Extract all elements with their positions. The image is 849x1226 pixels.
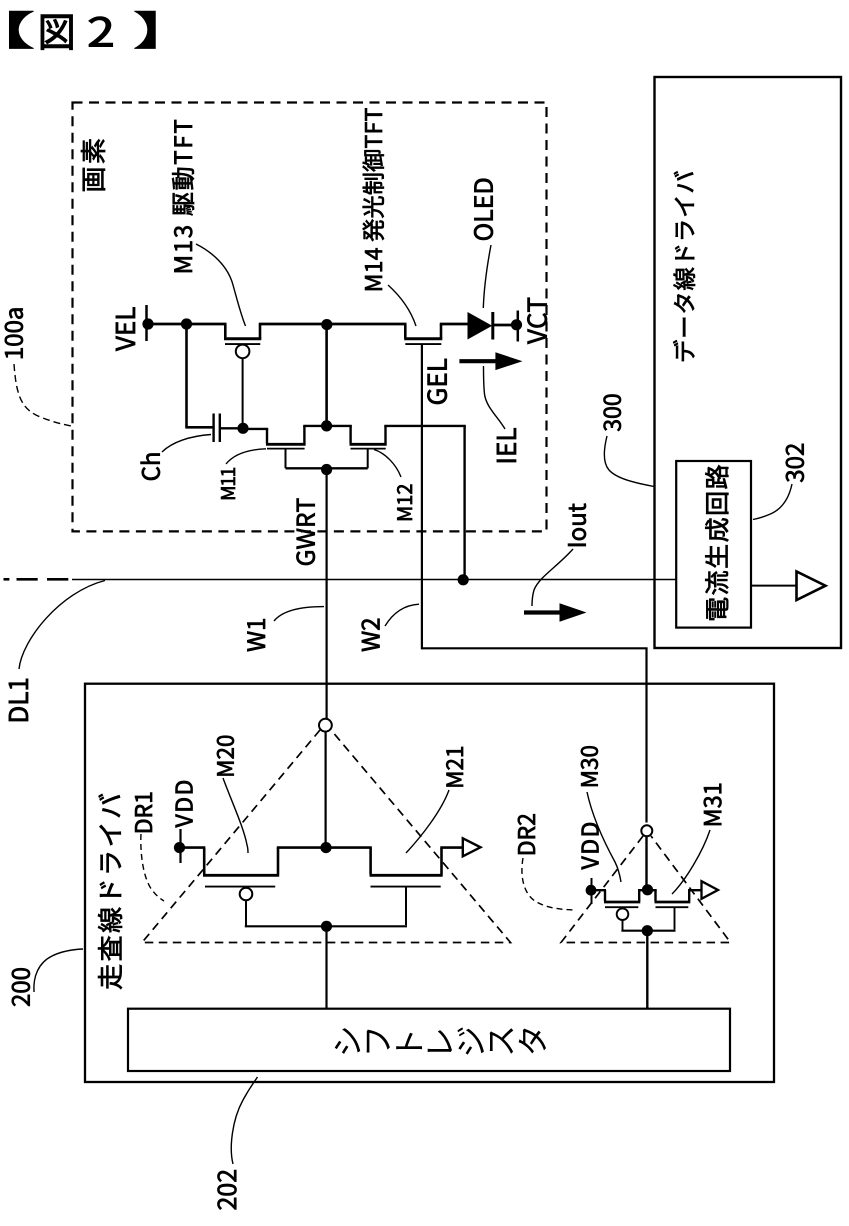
wire W2 horizontal run: [422, 647, 648, 649]
label M12: [397, 485, 412, 520]
wire OLED to VCT: [493, 324, 512, 327]
transistor M13 gate bar: [225, 343, 260, 345]
figure title 【図２】: [10, 11, 33, 48]
label OLED: [474, 179, 493, 240]
transistor M14 right lead: [440, 324, 443, 339]
leader for M31: [672, 830, 710, 894]
transistor M31 gate lead: [674, 907, 676, 929]
wire GEL from M14 gate down: [421, 344, 423, 649]
label シフトレジスタ (each glyph rotated): [335, 1028, 361, 1054]
leader for M11: [226, 449, 266, 464]
wire M12 drain to W2 drop: [384, 425, 466, 427]
transistor M13 source lead: [259, 324, 262, 339]
transistor M20 gate bubble: [240, 888, 253, 901]
wire node A to M11: [243, 428, 268, 430]
wire M11/M12 gates bus: [286, 467, 368, 469]
transistor M13 drain lead: [224, 324, 227, 339]
wire DR2 input down to shift register: [646, 931, 648, 1009]
transistor M12 left lead: [349, 426, 351, 444]
label IEL: [497, 428, 516, 462]
leader for 300: [604, 436, 654, 487]
output buffer triangle: [797, 572, 826, 601]
wire VEL rail right segment (to OLED): [440, 323, 468, 326]
leader for M20: [223, 778, 248, 853]
DR1 center node dot: [320, 842, 331, 853]
label データ線ドライバ: [673, 171, 695, 361]
label W2: [362, 619, 380, 652]
VDD terminal DR2: [591, 878, 593, 904]
leader for DR2 (dashed): [522, 858, 574, 910]
node dot on VEL rail: [321, 319, 332, 330]
label GWRT: [296, 499, 315, 565]
transistor M21 left lead: [369, 848, 372, 875]
label 200: [12, 968, 30, 1006]
leader for 100a: [14, 364, 71, 426]
leader for DL1: [19, 581, 105, 670]
wire M31 to DR2 output arrow: [688, 889, 701, 891]
label M14 発光制御TFT: [363, 108, 384, 290]
leader for W2: [385, 604, 419, 626]
node A dot (storage node): [237, 423, 248, 434]
transistor M31 gate bar: [656, 906, 689, 908]
leader for OLED: [483, 245, 491, 308]
wire DR1 input down to shift register: [325, 926, 327, 1009]
label M11: [221, 468, 235, 499]
label M30: [581, 746, 598, 786]
label DR2: [518, 814, 535, 854]
wire 302 output to buffer: [751, 585, 797, 587]
transistor M14 left lead: [404, 324, 407, 339]
label 画素: [81, 139, 105, 191]
transistor M30 gate bar: [605, 906, 638, 908]
VEL supply terminal: [145, 305, 148, 341]
transistor M30 channel bar: [604, 901, 640, 904]
wire VEL rail left segment: [147, 323, 227, 326]
VCT node dot: [511, 319, 522, 330]
transistor M21 gate bar: [371, 886, 441, 888]
transistor M11 left lead: [266, 429, 268, 444]
label VEL: [116, 307, 135, 351]
leader for Iout: [532, 549, 573, 606]
transistor M20 left lead: [203, 848, 206, 875]
leader for Ch: [162, 435, 211, 453]
transistor M31 channel bar: [655, 901, 691, 904]
label Ch: [141, 454, 160, 481]
transistor M11 gate lead: [285, 449, 287, 469]
label VDD (DR2): [582, 823, 599, 870]
transistor M20 channel bar: [203, 874, 279, 877]
wire branch corner to capacitor left plate: [185, 426, 212, 429]
DR1 gates bus wire: [245, 925, 407, 927]
center node dot (M11/M12): [321, 420, 332, 431]
IEL current arrow: [459, 359, 499, 363]
leader for 200: [34, 949, 83, 992]
label 100a: [5, 309, 23, 359]
wire capacitor to node A: [221, 427, 243, 429]
transistor M12 gate bar: [351, 448, 386, 450]
wire VDD to M20: [180, 846, 206, 849]
label M13 駆動TFT: [172, 120, 194, 272]
leader for 302: [753, 484, 792, 520]
DR2 output arrow: [702, 881, 719, 899]
label DR1: [135, 793, 152, 832]
scanning line driver box 200: [85, 684, 774, 1082]
wire M30 to DR2 center node: [638, 889, 657, 891]
capacitor Ch right plate: [219, 414, 221, 443]
transistor M11 channel bar: [266, 443, 306, 446]
transistor M21 right lead: [440, 848, 443, 875]
transistor M12 channel bar: [350, 443, 387, 446]
DR2 center node dot: [642, 884, 653, 895]
M30 gate wire down: [622, 919, 624, 931]
DL1 dash-dot segments: [4, 578, 10, 581]
leader for DR1 (dashed): [141, 834, 164, 901]
junction dot DL1 / M12 drain: [458, 574, 469, 585]
DL1 data line (solid): [72, 579, 676, 581]
wire VEL rail middle segment: [259, 323, 407, 326]
DR1 input node dot: [321, 921, 332, 932]
label M31: [704, 784, 722, 825]
wire W2 inside DR2: [645, 837, 647, 890]
wire M21 to DR1 output arrow: [440, 846, 462, 849]
transistor M21 gate lead: [405, 887, 407, 926]
wire W2 down to DR2: [645, 648, 647, 822]
label 302: [786, 444, 804, 482]
label M20: [217, 736, 234, 776]
capacitor Ch left plate: [212, 414, 214, 443]
transistor M20 right lead: [277, 848, 280, 875]
transistor M30 right lead: [638, 890, 640, 901]
leader for M30: [587, 792, 621, 882]
leader for M13: [196, 244, 246, 326]
transistor M11 right lead: [303, 426, 305, 444]
label VDD (DR1): [176, 781, 193, 828]
wire VDD to M30: [591, 889, 606, 891]
label 走査線ドライバ: [98, 794, 122, 989]
transistor M14 channel bar: [404, 337, 442, 340]
transistor M11 gate bar: [267, 448, 305, 450]
transistor M21 channel bar: [370, 874, 443, 877]
leader for M14: [388, 285, 416, 326]
transistor M31 left lead: [654, 890, 656, 901]
pixel cell dashed box 100a: [73, 103, 547, 532]
OLED cathode bar: [491, 312, 494, 340]
label 300: [604, 395, 622, 432]
transistor M12 right lead: [384, 426, 386, 444]
transistor M14 gate bar: [405, 343, 441, 345]
wire M11 to center node: [303, 425, 352, 427]
node dot at VEL terminal: [142, 318, 153, 329]
current generation circuit box 302: [676, 461, 751, 628]
OLED diode triangle: [468, 312, 493, 340]
DR2 input node dot: [642, 925, 653, 936]
leader for M21: [406, 790, 449, 853]
label W1: [247, 619, 265, 651]
node dot VEL rail / Ch branch: [181, 318, 192, 329]
DR2 gates bus wire: [621, 930, 675, 932]
DR1 output arrow: [463, 838, 481, 856]
DR2 dashed triangle: [561, 836, 731, 943]
shift register box 202: [128, 1009, 730, 1071]
transistor M30 gate bubble: [617, 908, 629, 920]
DR1 input bubble circle: [319, 719, 332, 732]
transistor M13 gate bubble: [236, 345, 250, 359]
leader for M12: [374, 450, 401, 478]
wire W1 inside DR1: [325, 732, 327, 848]
label Iout: [568, 504, 586, 546]
label DL1: [9, 679, 28, 721]
label VCT: [527, 298, 547, 344]
leader for IEL: [484, 366, 506, 429]
transistor M30 left lead: [604, 890, 606, 901]
M20 gate wire down: [245, 900, 247, 927]
transistor M20 gate bar: [205, 886, 275, 888]
VCT terminal bar: [517, 311, 520, 342]
transistor M13 channel bar: [224, 337, 261, 340]
wire M12 drain down to DL1: [463, 426, 465, 580]
wire M20 to center node DR1: [277, 846, 372, 849]
DR2 input bubble circle: [641, 825, 652, 836]
wire center node up to VEL rail: [325, 324, 328, 426]
transistor M31 right lead: [688, 890, 690, 901]
GWRT node dot: [321, 464, 332, 475]
leader for 202: [231, 1077, 257, 1164]
data line driver box 300: [655, 77, 842, 648]
Iout current arrow: [524, 610, 563, 614]
DR1 dashed triangle: [142, 730, 511, 943]
leader for W1: [274, 607, 324, 621]
wire M13 gate down to node A: [242, 358, 244, 428]
transistor M12 gate lead: [367, 449, 369, 469]
label 電流生成回路: [705, 465, 728, 620]
wire W1 from gates down to DR1: [326, 470, 328, 720]
label M21: [446, 747, 463, 787]
VDD terminal DR1: [179, 829, 181, 863]
label 202: [218, 1170, 237, 1209]
wire VEL branch down to capacitor: [185, 324, 188, 427]
label GEL: [427, 359, 447, 404]
